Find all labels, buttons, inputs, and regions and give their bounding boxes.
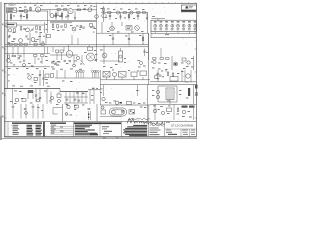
svg-text:INPUT: INPUT (9, 4, 17, 7)
svg-text:LP 12X DIAGRAM: LP 12X DIAGRAM (171, 124, 194, 128)
